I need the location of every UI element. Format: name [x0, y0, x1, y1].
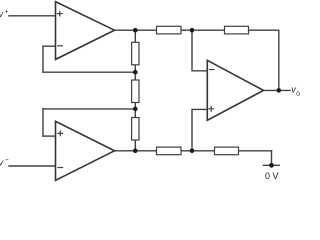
junction node A (U1 out / R chain top): [133, 28, 138, 33]
wire node B down to U3 inverting input: [192, 30, 207, 71]
svg-text:0 V: 0 V: [265, 171, 279, 181]
resistor R6 (bottom left horizontal): [157, 147, 182, 155]
wire U2 non-inverting input: [43, 135, 56, 137]
resistor R7 (bottom right horizontal): [215, 147, 239, 155]
junction ground node: [269, 163, 274, 168]
op-amp U3: [207, 60, 263, 120]
wire U2 feedback horizontal from node D: [43, 108, 135, 110]
svg-text:+: +: [5, 8, 9, 15]
wire v- input to op-amp U2 -: [9, 165, 56, 167]
junction node C (R6-R7 / U3 non-inv): [190, 149, 195, 154]
U1 minus symbol: [58, 45, 63, 47]
U1 plus symbol: [57, 11, 62, 16]
resistor R5 (vertical lower): [132, 118, 139, 141]
wire right feedback vertical to output node: [278, 30, 280, 90]
resistor R2 (top right horizontal): [225, 26, 249, 34]
svg-text:0: 0: [296, 91, 300, 98]
wire U1 feedback vertical: [42, 46, 44, 72]
wire node C up to U3 non-inverting input: [192, 109, 207, 150]
junction output node: [277, 88, 282, 93]
U2 plus symbol: [58, 131, 63, 136]
svg-text:−: −: [5, 157, 9, 164]
junction node B (R1-R2 / U3 inv): [190, 28, 195, 33]
ground rail 0V: [263, 164, 279, 166]
junction node F (U2 out / chain bottom): [133, 149, 138, 154]
U3 plus symbol: [209, 107, 214, 112]
wire down to ground: [271, 151, 273, 166]
junction node E (chain / U2 fb): [133, 107, 138, 112]
wire U1 feedback horizontal to node A: [43, 71, 135, 73]
op-amp U1: [56, 2, 115, 60]
wire top row U1 output to corner: [115, 29, 279, 31]
resistor R4 (vertical gain): [132, 80, 139, 103]
resistor R3 (vertical upper): [132, 42, 139, 65]
op-amp U2: [56, 121, 115, 180]
junction node D (chain / U1 fb): [133, 70, 138, 75]
wire bottom row U2 output to corner: [115, 150, 272, 152]
wire v+ input to op-amp U1 +: [9, 15, 56, 17]
wire middle resistor chain vertical: [134, 30, 136, 151]
wire U2 feedback vertical: [42, 109, 44, 136]
U2 minus symbol: [58, 167, 63, 169]
wire U1 inverting input: [43, 45, 56, 47]
svg-text:v: v: [0, 9, 4, 19]
resistor R1 (top left horizontal): [157, 26, 182, 34]
U3 minus symbol: [210, 69, 215, 71]
wire U3 output to vo: [264, 89, 291, 91]
svg-text:v: v: [0, 157, 4, 167]
